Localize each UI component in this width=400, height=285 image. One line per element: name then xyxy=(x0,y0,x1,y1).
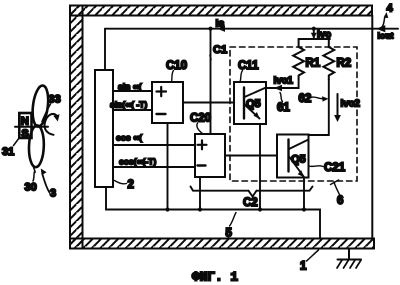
wire C20 output xyxy=(225,155,277,157)
svg-text:cos(∝(-T): cos(∝(-T) xyxy=(119,157,156,167)
svg-text:Is: Is xyxy=(216,18,225,30)
main supply wire Is/Iout xyxy=(105,28,398,30)
svg-text:sin ∝(: sin ∝( xyxy=(118,82,142,92)
base bar C21 xyxy=(287,140,289,172)
svg-text:Iout: Iout xyxy=(378,31,394,41)
svg-text:Q5: Q5 xyxy=(246,98,261,110)
svg-text:30: 30 xyxy=(25,182,37,194)
svg-text:Ivc2: Ivc2 xyxy=(341,99,361,110)
hatched frame top band xyxy=(70,6,372,16)
rotor tip squiggle xyxy=(33,166,35,173)
dashed box 6 xyxy=(230,47,357,181)
wire C21 emitter to bus xyxy=(303,178,305,210)
junction node at Ivc xyxy=(312,27,316,31)
svg-text:4: 4 xyxy=(387,3,394,15)
current arrow Ivc2 xyxy=(337,94,339,116)
transistor Q2 base bar (C11) xyxy=(243,88,245,119)
wire sin output xyxy=(113,90,152,92)
wire C10 bottom pin to bus xyxy=(167,123,169,210)
wire C20 bottom pin to bus xyxy=(199,177,201,210)
hatched frame left band xyxy=(70,6,83,249)
svg-text:6: 6 xyxy=(337,195,343,207)
resistor R2 xyxy=(323,39,334,80)
wire T-bar feeding R1 R2 xyxy=(299,36,330,39)
collector line C21 xyxy=(289,140,309,150)
svg-text:ФИГ. 1: ФИГ. 1 xyxy=(192,270,238,285)
hatched frame bottom band xyxy=(70,239,374,249)
svg-text:C11: C11 xyxy=(238,60,259,72)
svg-text:R2: R2 xyxy=(337,58,352,70)
wire R2 bottom to C21 collector xyxy=(309,80,329,136)
wire cos(wt-T) output xyxy=(113,166,195,168)
svg-text:62: 62 xyxy=(299,93,312,105)
wire sin(wt-T) output xyxy=(113,109,152,111)
wire C11 emitter to bus xyxy=(259,124,261,210)
svg-text:31: 31 xyxy=(2,146,14,158)
resistor R1 xyxy=(293,39,304,80)
svg-text:C10: C10 xyxy=(166,60,187,72)
rotor lower lobe xyxy=(28,125,44,167)
svg-text:1: 1 xyxy=(300,261,307,273)
magnet N/S box xyxy=(19,113,31,138)
junction node at Is/C1 xyxy=(208,27,212,31)
block 2 (sensor block) xyxy=(95,70,113,187)
svg-text:3: 3 xyxy=(50,188,56,200)
minus sign of C20 xyxy=(198,164,206,166)
rotor axis line xyxy=(15,126,48,128)
wire cos output xyxy=(113,144,195,146)
svg-text:2: 2 xyxy=(128,179,134,191)
svg-text:C20: C20 xyxy=(190,113,211,125)
svg-text:S: S xyxy=(21,128,28,140)
svg-text:cos ∝(: cos ∝( xyxy=(116,133,142,143)
Ivc stub arrow from supply xyxy=(313,29,315,33)
arrowhead of 4 leader xyxy=(384,12,389,18)
op-amp C20 box xyxy=(195,134,225,177)
svg-text:N: N xyxy=(21,115,29,127)
arrowhead Ivc1 xyxy=(274,85,282,92)
net C1 vertical wire xyxy=(210,29,212,134)
svg-text:R1: R1 xyxy=(306,58,321,70)
collector line C11 xyxy=(245,88,267,98)
svg-text:C2: C2 xyxy=(243,197,258,209)
wire C10 output xyxy=(183,102,234,104)
op-amp C10 box xyxy=(152,82,183,123)
minus sign of C10 xyxy=(157,113,166,115)
svg-text:Q5: Q5 xyxy=(291,154,306,166)
rotation arrow xyxy=(45,114,57,135)
transistor C11 box xyxy=(234,82,266,124)
junction dot C10 pin xyxy=(165,207,169,211)
emitter line with arrow C11 xyxy=(245,105,260,119)
plus sign of C20 xyxy=(198,140,207,149)
svg-text:Ivc1: Ivc1 xyxy=(274,76,294,87)
C2 label pointer notch xyxy=(249,191,257,197)
arrowhead Is (current direction) xyxy=(218,26,226,32)
svg-text:5: 5 xyxy=(226,228,233,240)
transistor C21 box xyxy=(277,135,309,178)
arrowhead Iout xyxy=(376,25,385,32)
wire: left drop to block 2 xyxy=(104,29,106,70)
svg-text:sin(∝( -T): sin(∝( -T) xyxy=(110,100,147,110)
junction dot C21 emitter xyxy=(302,207,306,211)
ground symbol xyxy=(338,249,362,260)
junction dot C20 pin xyxy=(198,207,202,211)
svg-text:C21: C21 xyxy=(324,162,346,174)
svg-text:61: 61 xyxy=(277,102,290,114)
bottom bus wire xyxy=(106,187,320,239)
svg-text:C1: C1 xyxy=(213,44,227,56)
rotor upper lobe xyxy=(31,85,51,128)
net C2 horizontal wire xyxy=(191,187,313,191)
junction dot C11 emitter xyxy=(258,207,262,211)
wire R1 bottom to C11 collector (Ivc1) xyxy=(266,80,299,89)
frame right closing line xyxy=(371,16,373,239)
plus sign of C10 xyxy=(157,87,167,96)
emitter line with arrow C21 xyxy=(289,157,304,178)
